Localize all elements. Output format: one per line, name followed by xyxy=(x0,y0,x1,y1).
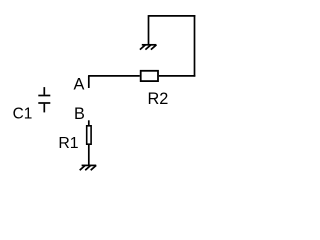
resistor R1 xyxy=(87,126,91,144)
capacitor C1 xyxy=(38,87,50,112)
svg-text:A: A xyxy=(74,76,85,94)
svg-text:B: B xyxy=(74,105,85,123)
svg-text:R1: R1 xyxy=(58,135,78,152)
ground (top) xyxy=(140,45,157,50)
wire top horizontal xyxy=(149,15,196,17)
wire right vertical xyxy=(194,15,196,77)
wire R2 to right xyxy=(159,75,195,77)
wire B stub to R1 xyxy=(88,120,90,125)
svg-text:R2: R2 xyxy=(148,90,169,108)
wire A to R2 xyxy=(88,75,140,77)
ground (bottom) xyxy=(80,165,97,170)
resistor R2 xyxy=(141,71,158,81)
wire R1 to ground xyxy=(88,145,90,165)
wire left vertical to ground xyxy=(148,15,150,45)
wire A stub xyxy=(88,76,90,88)
svg-text:C1: C1 xyxy=(13,106,33,123)
